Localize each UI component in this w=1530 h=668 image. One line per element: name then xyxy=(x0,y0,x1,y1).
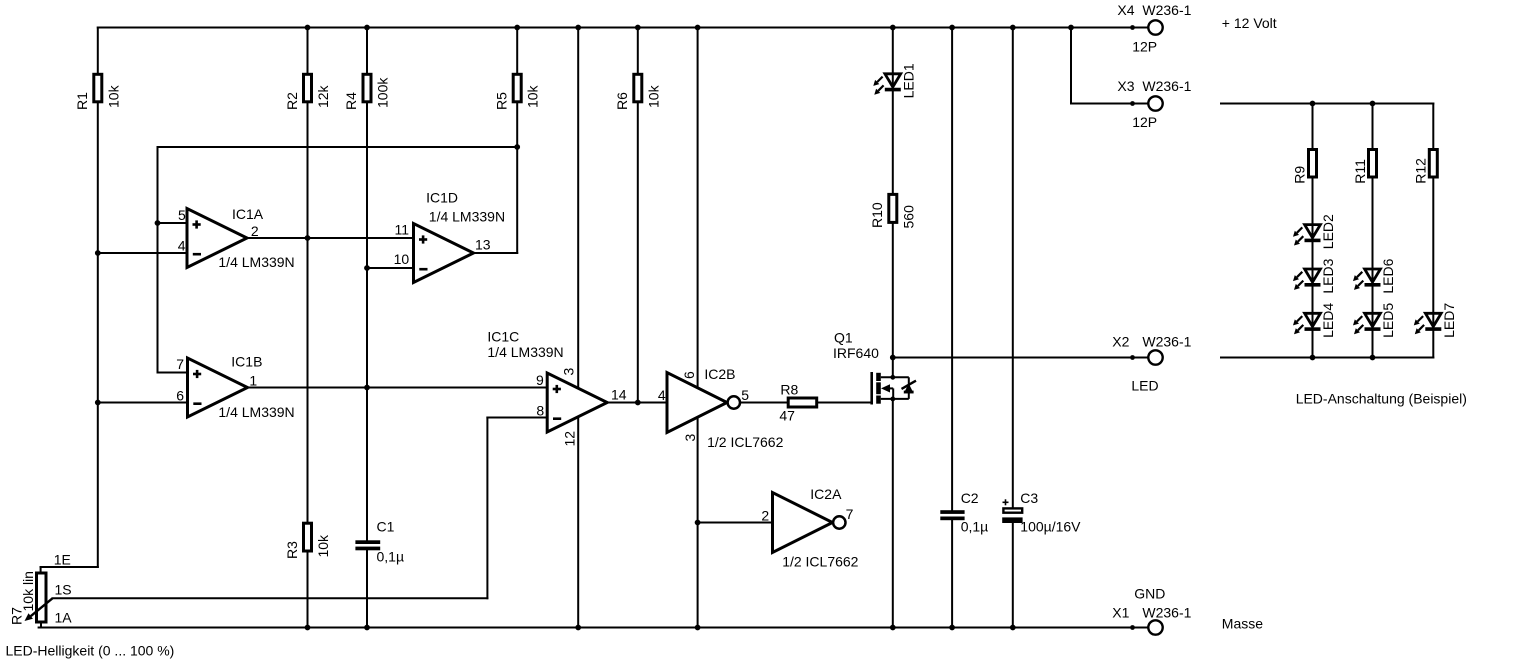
svg-text:5: 5 xyxy=(178,207,186,223)
svg-text:10k lin: 10k lin xyxy=(20,571,36,611)
svg-text:560: 560 xyxy=(900,205,916,229)
svg-text:X4: X4 xyxy=(1117,2,1134,18)
svg-text:X2: X2 xyxy=(1112,334,1129,350)
svg-text:X3: X3 xyxy=(1117,78,1134,94)
svg-text:Q1: Q1 xyxy=(834,330,853,346)
svg-text:13: 13 xyxy=(475,237,491,253)
svg-text:R4: R4 xyxy=(343,92,359,110)
svg-text:0,1µ: 0,1µ xyxy=(377,549,405,565)
svg-text:12P: 12P xyxy=(1132,114,1157,130)
svg-text:2: 2 xyxy=(761,508,769,524)
svg-text:0,1µ: 0,1µ xyxy=(961,519,989,535)
svg-text:LED1: LED1 xyxy=(900,63,916,98)
svg-text:10: 10 xyxy=(394,251,410,267)
svg-text:1A: 1A xyxy=(55,610,73,626)
svg-text:LED-Helligkeit (0 ... 100 %): LED-Helligkeit (0 ... 100 %) xyxy=(6,643,175,659)
svg-text:LED3: LED3 xyxy=(1320,258,1336,293)
svg-text:3: 3 xyxy=(561,368,577,376)
svg-text:C3: C3 xyxy=(1020,490,1038,506)
svg-text:1/2 ICL7662: 1/2 ICL7662 xyxy=(782,554,858,570)
svg-text:R2: R2 xyxy=(284,92,300,110)
svg-text:IRF640: IRF640 xyxy=(833,345,879,361)
svg-text:W236-1: W236-1 xyxy=(1142,78,1191,94)
svg-text:100µ/16V: 100µ/16V xyxy=(1020,519,1081,535)
svg-text:LED6: LED6 xyxy=(1380,258,1396,293)
svg-text:IC2B: IC2B xyxy=(704,366,735,382)
svg-text:1/4 LM339N: 1/4 LM339N xyxy=(487,344,563,360)
svg-text:X1: X1 xyxy=(1112,605,1129,621)
svg-text:1/4 LM339N: 1/4 LM339N xyxy=(429,209,505,225)
svg-text:10k: 10k xyxy=(315,534,331,558)
svg-text:R12: R12 xyxy=(1412,158,1428,184)
svg-text:12: 12 xyxy=(562,431,578,447)
svg-text:R10: R10 xyxy=(869,202,885,228)
svg-text:1/2 ICL7662: 1/2 ICL7662 xyxy=(707,434,783,450)
svg-text:1/4 LM339N: 1/4 LM339N xyxy=(218,254,294,270)
svg-text:6: 6 xyxy=(176,388,184,404)
svg-text:Masse: Masse xyxy=(1222,616,1263,632)
svg-text:R8: R8 xyxy=(780,382,798,398)
svg-text:W236-1: W236-1 xyxy=(1142,2,1191,18)
svg-text:8: 8 xyxy=(536,403,544,419)
svg-text:IC1C: IC1C xyxy=(487,329,519,345)
svg-text:W236-1: W236-1 xyxy=(1142,334,1191,350)
svg-text:12P: 12P xyxy=(1132,39,1157,55)
svg-text:9: 9 xyxy=(536,372,544,388)
svg-text:10k: 10k xyxy=(645,84,661,108)
svg-text:4: 4 xyxy=(658,387,666,403)
svg-text:10k: 10k xyxy=(105,84,121,108)
svg-text:2: 2 xyxy=(251,223,259,239)
svg-text:LED4: LED4 xyxy=(1320,303,1336,338)
svg-text:1E: 1E xyxy=(54,552,71,568)
svg-text:5: 5 xyxy=(741,387,749,403)
svg-text:100k: 100k xyxy=(375,77,391,108)
svg-text:LED-Anschaltung (Beispiel): LED-Anschaltung (Beispiel) xyxy=(1296,391,1467,407)
svg-text:GND: GND xyxy=(1134,585,1165,601)
svg-text:1S: 1S xyxy=(55,582,72,598)
svg-text:C1: C1 xyxy=(377,519,395,535)
svg-text:R9: R9 xyxy=(1292,166,1308,184)
svg-text:1: 1 xyxy=(249,373,257,389)
svg-text:3: 3 xyxy=(682,434,698,442)
svg-text:12k: 12k xyxy=(315,84,331,108)
svg-text:14: 14 xyxy=(611,387,627,403)
svg-text:7: 7 xyxy=(176,356,184,372)
svg-text:+ 12 Volt: + 12 Volt xyxy=(1222,15,1277,31)
svg-text:LED: LED xyxy=(1131,377,1158,393)
svg-text:IC1D: IC1D xyxy=(426,190,458,206)
svg-text:LED5: LED5 xyxy=(1380,303,1396,338)
svg-text:11: 11 xyxy=(395,222,410,238)
svg-text:C2: C2 xyxy=(961,490,979,506)
svg-text:R5: R5 xyxy=(493,92,509,110)
svg-text:6: 6 xyxy=(681,371,697,379)
svg-text:1/4 LM339N: 1/4 LM339N xyxy=(218,404,294,420)
svg-text:10k: 10k xyxy=(525,84,541,108)
svg-text:IC1B: IC1B xyxy=(231,354,262,370)
svg-text:4: 4 xyxy=(178,238,186,254)
svg-text:W236-1: W236-1 xyxy=(1142,605,1191,621)
svg-text:47: 47 xyxy=(779,408,795,424)
svg-text:7: 7 xyxy=(846,506,854,522)
svg-text:R6: R6 xyxy=(614,92,630,110)
svg-text:LED7: LED7 xyxy=(1441,303,1457,338)
svg-text:LED2: LED2 xyxy=(1320,214,1336,249)
svg-text:R1: R1 xyxy=(74,92,90,110)
svg-text:R11: R11 xyxy=(1352,159,1368,184)
svg-text:IC1A: IC1A xyxy=(232,206,264,222)
svg-text:R3: R3 xyxy=(284,541,300,559)
svg-text:IC2A: IC2A xyxy=(810,486,842,502)
